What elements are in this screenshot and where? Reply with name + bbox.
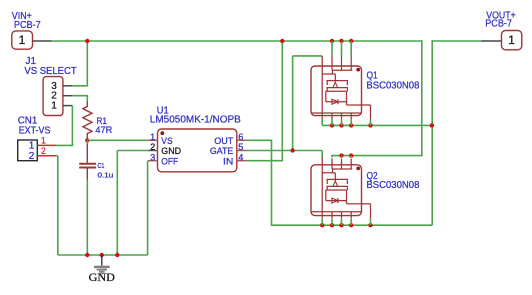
wire CN1 pin 2 to GND rail <box>56 155 58 157</box>
svg-text:1: 1 <box>150 132 155 142</box>
pin 1 of J1 <box>63 105 72 107</box>
pin 1 VS of U1 <box>148 139 158 141</box>
wire J1 pin 2 to R1 <box>72 95 88 97</box>
wire VOUT top segment <box>432 40 481 42</box>
pin 2 GND of U1 <box>148 150 158 152</box>
wire VIN down to U1 IN <box>281 41 283 161</box>
svg-text:C1: C1 <box>98 161 105 170</box>
svg-text:1: 1 <box>508 33 515 47</box>
pin 3 OFF of U1 <box>148 160 158 162</box>
wire VOUT bottom rail <box>272 224 433 226</box>
transistor Q2 BSC030N08 <box>311 165 362 216</box>
junction VIN/IN <box>280 39 284 43</box>
wire U1 OFF to rail <box>147 161 149 255</box>
wire C1 to GND rail <box>86 180 88 256</box>
junction Q1 rail to VOUT riser <box>430 123 434 127</box>
svg-text:BSC030N08: BSC030N08 <box>366 180 419 191</box>
svg-text:4: 4 <box>238 152 243 162</box>
svg-text:1: 1 <box>51 101 57 112</box>
pin 2 of J1 <box>63 95 72 97</box>
wire VIN rail <box>52 40 422 42</box>
wire VIN to J1 pin 3 <box>86 41 88 86</box>
pin 1 of VOUT+ connector <box>481 40 501 42</box>
junction R1/C1/U1 VS <box>85 138 89 142</box>
junction Q1 sources <box>330 123 334 127</box>
junction C1/GND rail <box>85 253 89 257</box>
junction Q2 drain rail <box>339 153 343 157</box>
wire Q2 drain rail <box>331 155 422 157</box>
svg-text:BSC030N08: BSC030N08 <box>366 80 419 91</box>
svg-text:0.1u: 0.1u <box>98 171 114 180</box>
junction U1 GND/rail <box>115 253 119 257</box>
svg-text:5: 5 <box>238 142 243 152</box>
wire VIN rail drop to Q2 drains <box>421 40 423 155</box>
pin 5 GATE of U1 <box>237 150 247 152</box>
svg-text:EXT-VS: EXT-VS <box>19 126 51 137</box>
svg-text:OFF: OFF <box>161 156 178 167</box>
pin 2 of CN1 <box>37 155 56 157</box>
junction VIN/Q1 drain pins <box>330 39 334 43</box>
pin 1 of VIN+ connector <box>33 40 52 42</box>
svg-text:2: 2 <box>41 146 46 156</box>
ground <box>101 255 103 266</box>
wire Q1 drain pins to VIN rail <box>331 41 333 57</box>
junction GATE net <box>290 148 294 152</box>
pin 4 IN of U1 <box>237 160 247 162</box>
wire Q2 drain pins to drain rail <box>331 156 333 158</box>
wire R1 junction to U1 VS <box>87 139 148 141</box>
junction GND symbol <box>100 253 104 257</box>
svg-text:GND: GND <box>89 270 116 284</box>
svg-text:3: 3 <box>150 152 155 162</box>
wire Q1 source rail <box>322 124 432 126</box>
transistor Q1 BSC030N08 <box>311 66 362 116</box>
pin 1 of CN1 <box>37 144 56 146</box>
capacitor C1 0.1u <box>86 144 88 163</box>
svg-text:1: 1 <box>41 136 46 146</box>
svg-text:PCB-7: PCB-7 <box>14 20 41 31</box>
svg-text:1: 1 <box>18 33 25 47</box>
wire Q1 source pins to rail <box>321 119 323 125</box>
wire junction down to C1 <box>86 140 88 144</box>
junction VIN/J1 <box>85 39 89 43</box>
wire J1 pin 1 to CN1 pin 1 <box>71 105 74 107</box>
svg-text:LM5050MK-1/NOPB: LM5050MK-1/NOPB <box>150 115 241 126</box>
wire U1 OUT to VOUT rail <box>247 139 273 141</box>
svg-text:VS SELECT: VS SELECT <box>24 66 76 77</box>
svg-text:6: 6 <box>238 132 243 142</box>
wire Q2 source pins to VOUT rail <box>321 219 323 226</box>
wire U1 GATE to Q1/Q2 gates <box>247 150 323 152</box>
pin 6 OUT of U1 <box>237 139 247 141</box>
svg-text:PCB-7: PCB-7 <box>485 18 512 29</box>
svg-text:IN: IN <box>223 156 233 167</box>
svg-text:2: 2 <box>29 151 35 162</box>
svg-text:47R: 47R <box>95 125 112 136</box>
wire VOUT riser <box>431 40 433 225</box>
svg-text:2: 2 <box>150 142 155 152</box>
wire U1 GND to rail <box>116 151 118 256</box>
resistor R1 47R <box>83 101 92 140</box>
wire GND rail <box>58 254 148 256</box>
pin 3 of J1 <box>63 85 72 87</box>
junction Q2 sources <box>320 223 324 227</box>
